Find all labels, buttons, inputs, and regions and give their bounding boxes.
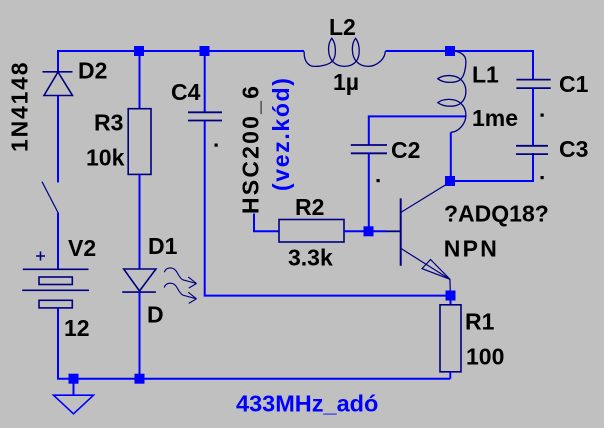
svg-text:12: 12 bbox=[64, 315, 90, 341]
svg-text:1me: 1me bbox=[472, 105, 518, 131]
label C4 value dot bbox=[215, 144, 218, 147]
junction node collector bbox=[445, 176, 455, 186]
resistor R1 bbox=[440, 305, 461, 372]
wire top rail right of L2 bbox=[386, 51, 534, 80]
battery V2 bbox=[22, 252, 89, 308]
inductor L1 bbox=[438, 51, 466, 132]
svg-text:R3: R3 bbox=[94, 110, 123, 136]
junction node top R3 bbox=[134, 46, 144, 56]
wire R1 top bbox=[450, 296, 452, 306]
svg-text:NPN: NPN bbox=[444, 236, 499, 262]
capacitor C4 bbox=[188, 112, 222, 120]
svg-text:?ADQ18?: ?ADQ18? bbox=[444, 201, 549, 227]
wire C4 branch top bbox=[204, 51, 206, 112]
svg-text:D: D bbox=[147, 302, 164, 328]
diode D2 bbox=[43, 72, 73, 96]
label C2 value dot bbox=[377, 179, 380, 182]
wire D1 bottom to rail bbox=[139, 292, 141, 379]
junction node emitter bbox=[446, 291, 456, 301]
junction node D1 bottom bbox=[135, 374, 145, 384]
svg-text:D1: D1 bbox=[148, 233, 178, 259]
wire C2 bottom to base junction bbox=[368, 153, 370, 231]
svg-text:C4: C4 bbox=[171, 79, 201, 105]
ground bbox=[54, 383, 94, 414]
svg-text:R1: R1 bbox=[465, 309, 495, 335]
svg-text:1N4148: 1N4148 bbox=[7, 61, 33, 152]
LED D1 light arrows bbox=[164, 268, 196, 304]
capacitor C1 bbox=[516, 80, 550, 89]
wire left branch D2 top bbox=[57, 50, 59, 72]
svg-text:D2: D2 bbox=[78, 57, 107, 83]
wire R3 to D1 bbox=[139, 174, 141, 269]
junction node base bbox=[364, 226, 374, 236]
svg-text:V2: V2 bbox=[68, 235, 96, 261]
wire R2 right to base bbox=[344, 230, 386, 232]
wire C1 bottom to C3 top bbox=[532, 88, 534, 146]
capacitor C3 bbox=[516, 146, 548, 154]
resistor R3 bbox=[128, 109, 151, 175]
svg-text:C1: C1 bbox=[559, 71, 589, 97]
junction node ground bbox=[69, 374, 79, 384]
wire C2 branch bbox=[369, 116, 466, 145]
svg-text:C3: C3 bbox=[559, 136, 588, 162]
junction node top L1 bbox=[445, 46, 455, 56]
svg-text:C2: C2 bbox=[391, 137, 420, 163]
wire switch to battery bbox=[57, 213, 59, 269]
net stub HSC200_6 bbox=[254, 214, 279, 232]
transistor Q1 base lead bbox=[386, 230, 401, 232]
label C3 value dot bbox=[541, 176, 544, 179]
transistor Q1 NPN bbox=[401, 182, 451, 291]
LED D1 bbox=[122, 269, 156, 292]
svg-text:L1: L1 bbox=[472, 62, 499, 88]
resistor R2 bbox=[279, 220, 344, 243]
wire C4 bottom to emitter rail bbox=[205, 121, 451, 296]
svg-text:1µ: 1µ bbox=[333, 69, 359, 95]
svg-text:10k: 10k bbox=[86, 145, 125, 171]
wire battery bottom to rail bbox=[58, 308, 450, 379]
wire D2 bottom to switch bbox=[57, 96, 59, 183]
capacitor C2 bbox=[351, 145, 387, 153]
svg-text:3.3k: 3.3k bbox=[288, 245, 333, 271]
wire L1 bottom to collector junction bbox=[450, 132, 452, 181]
svg-text:433MHz_adó: 433MHz_adó bbox=[236, 391, 378, 417]
switch lever bbox=[42, 182, 58, 213]
junction node top C4 bbox=[200, 46, 210, 56]
svg-text:L2: L2 bbox=[329, 14, 356, 40]
wire R1 bottom to rail bbox=[449, 372, 451, 379]
wire R3 branch top bbox=[139, 51, 141, 109]
svg-text:100: 100 bbox=[466, 344, 504, 370]
wire top rail left bbox=[58, 50, 304, 52]
wire collector junction to C3 bbox=[450, 153, 533, 181]
label C1 value dot bbox=[541, 114, 544, 117]
svg-text:HSC200_6: HSC200_6 bbox=[238, 84, 264, 214]
svg-text:R2: R2 bbox=[295, 194, 324, 220]
inductor L2 bbox=[304, 38, 385, 66]
svg-text:(vez.kód): (vez.kód) bbox=[268, 76, 294, 191]
